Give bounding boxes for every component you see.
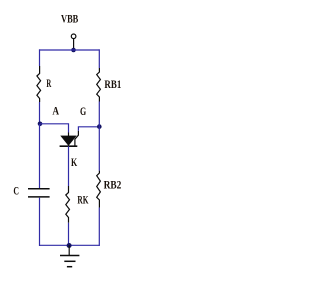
resistor RB2 <box>97 171 101 208</box>
thyristor gate lead <box>75 131 79 146</box>
svg-text:G: G <box>80 106 86 118</box>
thyristor anode lead <box>68 133 70 137</box>
capacitor C <box>28 189 50 197</box>
ground <box>60 245 79 266</box>
svg-text:RB2: RB2 <box>104 180 122 192</box>
wire bottom rail <box>40 244 100 246</box>
svg-text:VBB: VBB <box>61 14 79 26</box>
wire node A to anode corner <box>40 124 69 133</box>
svg-text:R: R <box>46 78 51 90</box>
svg-text:RK: RK <box>77 194 88 206</box>
wire below capacitor <box>39 198 41 246</box>
wire below RK <box>68 223 70 246</box>
thyristor SCR triangle <box>61 136 76 146</box>
wire right rail between RB1 and node G <box>98 102 100 171</box>
svg-text:RB1: RB1 <box>104 79 121 91</box>
terminal VBB <box>71 34 76 50</box>
wire top rail <box>40 49 100 51</box>
wire left rail upper <box>39 49 41 66</box>
wire gate to right rail <box>78 127 99 131</box>
node ground junction <box>67 243 72 248</box>
wire left rail node A to capacitor <box>39 124 41 188</box>
resistor R <box>37 66 41 102</box>
thyristor cathode bar <box>60 145 78 147</box>
svg-text:A: A <box>52 106 59 118</box>
resistor RK <box>66 186 70 223</box>
resistor RB1 <box>97 68 101 102</box>
node G junction on right rail <box>97 124 102 129</box>
node VBB junction <box>71 48 76 53</box>
svg-text:C: C <box>13 185 19 197</box>
wire left rail between R and node A <box>39 102 41 124</box>
wire cathode down <box>68 146 70 186</box>
wire right rail upper <box>98 49 100 68</box>
svg-text:K: K <box>71 157 77 169</box>
node A <box>38 122 43 127</box>
wire right rail lower <box>98 208 100 246</box>
